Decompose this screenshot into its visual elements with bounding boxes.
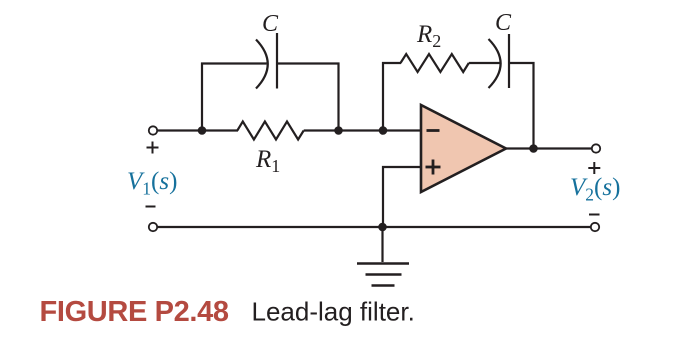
- resistor R1: [237, 122, 303, 140]
- terminal circle: V1 minus: [149, 223, 157, 231]
- terminal circle: V2 minus: [591, 223, 599, 231]
- capacitor C (left) curved plate: [256, 40, 268, 89]
- capacitor C (right) straight plate: [508, 34, 510, 88]
- plus sign at V1 terminal: [147, 147, 159, 149]
- node A junction dot: [198, 126, 207, 135]
- wire: node C up to feedback branch: [382, 62, 384, 131]
- wire: op-amp output to output terminal: [506, 147, 592, 149]
- svg-text:R1: R1: [255, 146, 280, 176]
- wire: capacitor C (right) to output node (corner down): [509, 63, 534, 149]
- wire: left loop right vertical down to node B: [337, 63, 339, 132]
- op-amp noninverting input plus sign: [426, 166, 441, 169]
- wire: resistor R1 to op-amp inverting input: [304, 129, 421, 131]
- wire: left loop vertical (node A up): [201, 63, 203, 132]
- svg-text:Lead-lag filter.: Lead-lag filter.: [252, 297, 415, 327]
- minus sign at V2 terminal: [589, 214, 600, 216]
- minus sign at V1 terminal: [146, 206, 156, 208]
- wire: feedback branch corner to resistor R2: [382, 62, 401, 64]
- terminal circle: V2 plus: [592, 144, 600, 152]
- wire: resistor R2 to capacitor C (right): [469, 62, 500, 64]
- wire: bottom rail: [158, 226, 592, 228]
- plus sign at V2 terminal: [588, 167, 600, 169]
- terminal circle: V1 plus: [149, 126, 157, 134]
- svg-text:C: C: [495, 10, 512, 36]
- ground bar 2: [366, 273, 402, 276]
- ground bar 1: [357, 262, 409, 265]
- ground bar 3: [372, 284, 395, 287]
- node E ground junction dot: [378, 223, 387, 232]
- svg-text:FIGURE P2.48: FIGURE P2.48: [40, 296, 229, 328]
- node B junction dot: [334, 126, 343, 135]
- wire: capacitor C to loop top-right: [277, 62, 340, 64]
- wire: input terminal to resistor R1: [158, 129, 239, 131]
- svg-text:V2(s): V2(s): [570, 174, 620, 205]
- resistor R2: [401, 54, 469, 72]
- wire: loop top-left to capacitor C: [201, 62, 267, 64]
- svg-text:C: C: [262, 11, 279, 37]
- wire: op-amp noninverting input to ground branch: [383, 167, 421, 227]
- capacitor C (right) curved plate: [489, 39, 501, 88]
- capacitor C (left) straight plate: [276, 33, 278, 89]
- ground stem: [381, 227, 383, 262]
- op-amp inverting input minus sign: [427, 129, 440, 132]
- op-amp U1 body: [421, 105, 506, 192]
- node C junction dot: [379, 126, 388, 135]
- node D output junction dot: [529, 144, 538, 153]
- svg-text:V1(s): V1(s): [127, 168, 177, 199]
- svg-text:R2: R2: [416, 21, 441, 51]
